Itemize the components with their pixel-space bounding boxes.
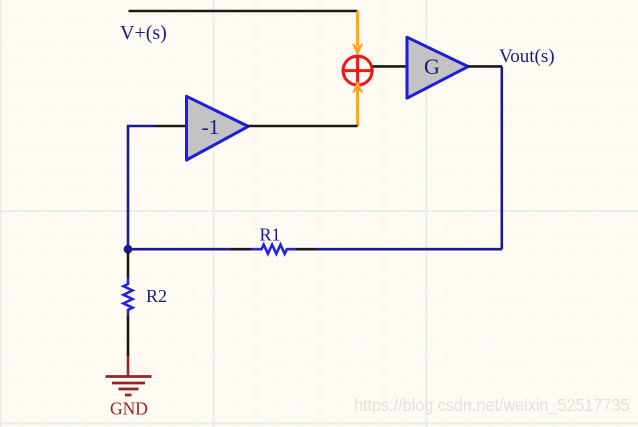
wire ground lead (dark red) xyxy=(127,356,130,377)
svg-text:Vout(s): Vout(s) xyxy=(499,46,555,67)
arrowhead up xyxy=(353,82,363,93)
pin R1 right (black) xyxy=(296,248,317,251)
svg-text:GND: GND xyxy=(110,398,148,418)
resistor R2 xyxy=(123,278,132,315)
wire V+ top horizontal xyxy=(129,10,358,13)
ground symbol xyxy=(106,377,152,396)
svg-text:-1: -1 xyxy=(202,115,220,139)
summing junction xyxy=(342,55,374,87)
svg-text:https://blog.csdn.net/weixin_5: https://blog.csdn.net/weixin_52517735 xyxy=(354,395,630,416)
wire summer to G xyxy=(373,65,408,68)
svg-text:R1: R1 xyxy=(260,225,281,245)
pin -1 input (black) xyxy=(156,125,188,128)
wire orange into summer (top) xyxy=(356,11,359,46)
arrowhead down xyxy=(353,44,363,55)
wire lower horizontal (R1 right to Vout corner) xyxy=(316,248,502,251)
wire Vout vertical xyxy=(500,66,503,249)
svg-text:R2: R2 xyxy=(146,286,167,306)
resistor R1 xyxy=(252,245,296,254)
svg-text:V+(s): V+(s) xyxy=(120,22,167,44)
wire -1 output to orange riser xyxy=(247,125,358,128)
svg-text:G: G xyxy=(424,54,440,79)
wire orange feedback into summer (bottom) xyxy=(356,90,359,126)
wire G output xyxy=(468,65,503,68)
wire junction to R1 (navy) xyxy=(128,248,230,251)
junction node xyxy=(124,245,133,254)
pin R1 left (black) xyxy=(230,248,252,251)
wire junction up to -1 input xyxy=(128,126,156,249)
pin R2 bottom (black) xyxy=(127,315,130,357)
inverter block -1 xyxy=(187,96,249,160)
pin R2 top (black) xyxy=(127,252,130,278)
gain block G xyxy=(407,37,468,98)
